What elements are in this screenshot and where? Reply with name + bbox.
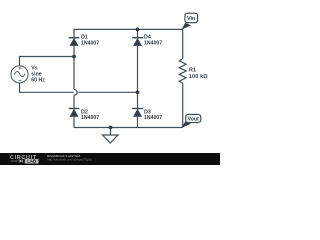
wire branch1 upper segment	[73, 29, 75, 37]
CircuitLab watermark bar	[0, 153, 220, 165]
node A junction dot	[72, 55, 76, 59]
svg-text:Vin: Vin	[187, 16, 195, 22]
svg-text:1N4007: 1N4007	[144, 115, 162, 121]
wire branch1 lower segment (hop to D2)	[73, 95, 75, 108]
wire branch2 bottom segment	[137, 117, 139, 128]
svg-text:1N4007: 1N4007	[144, 40, 162, 46]
diode D4	[132, 35, 162, 47]
node B junction dot	[136, 90, 140, 94]
wire source bottom lead (left of hop)	[20, 83, 74, 92]
svg-text:http://circuitlab.com/c6vhpyz7: http://circuitlab.com/c6vhpyz75g7q	[47, 157, 92, 161]
wire branch2 middle segment (D4 to node B)	[137, 46, 139, 109]
node Vout flag	[181, 114, 201, 128]
voltage source V1	[11, 66, 45, 84]
diode D1	[69, 35, 100, 47]
svg-text:100 kΩ: 100 kΩ	[189, 74, 209, 80]
svg-text:Vout: Vout	[187, 117, 199, 123]
resistor R1	[179, 59, 208, 85]
svg-text:1N4007: 1N4007	[81, 115, 99, 121]
wire branch2 upper segment	[137, 29, 139, 37]
svg-text:1N4007: 1N4007	[81, 40, 99, 46]
node Vin flag	[181, 13, 197, 30]
wire source top lead	[20, 57, 75, 66]
svg-text:R1: R1	[189, 67, 196, 73]
diode D3	[132, 109, 162, 122]
wire bottom rail	[74, 127, 183, 129]
wire top rail	[74, 28, 183, 30]
node ground junction dot	[109, 126, 113, 130]
wire branch1 bottom segment	[73, 117, 75, 128]
wire branch1 middle segment (D1 to hop)	[73, 46, 75, 89]
node top rail / D4 junction dot	[136, 28, 140, 32]
wire hop over source bottom lead	[74, 89, 77, 95]
wire right vertical (R1 to bottom rail)	[182, 85, 184, 128]
wire right vertical (top rail to R1)	[182, 29, 184, 58]
svg-text:60 Hz: 60 Hz	[31, 78, 45, 84]
ground	[103, 128, 119, 144]
svg-text:LAB: LAB	[27, 159, 36, 164]
wire source bottom lead (right of hop, to node B)	[78, 91, 137, 93]
diode D2	[69, 109, 100, 122]
